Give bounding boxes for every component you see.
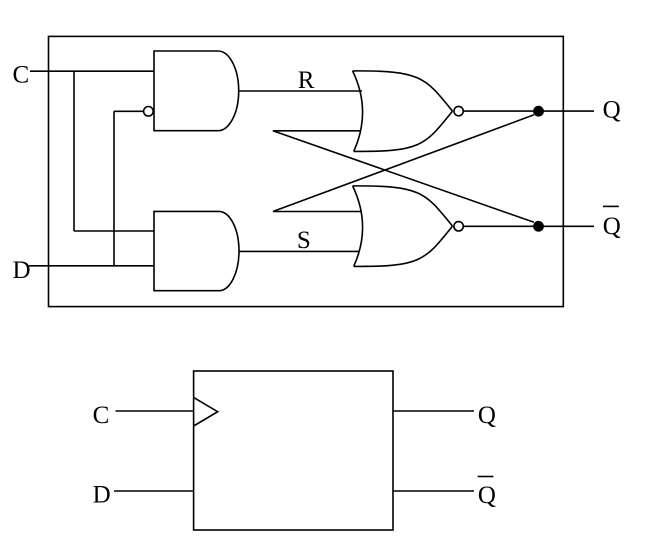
overline of Qbar block — [478, 476, 494, 478]
wire C input — [30, 70, 154, 72]
NOR U4 output bubble — [454, 222, 463, 231]
wire C block input — [116, 410, 194, 412]
AND gate U2 — [154, 211, 239, 290]
input bubble on AND U1 — [144, 107, 154, 117]
wire diagonal Qbar to U3 — [273, 131, 534, 223]
AND gate U1 — [154, 51, 239, 131]
wire Q block output — [393, 410, 474, 412]
svg-text:Q: Q — [478, 402, 496, 429]
wire R — [239, 90, 362, 92]
wire Qbar output — [464, 225, 595, 227]
wire D to inverter bubble — [114, 110, 144, 112]
NOR gate U3 — [353, 71, 453, 152]
wire Q output — [464, 110, 595, 112]
svg-text:Q: Q — [603, 97, 621, 124]
junction dot Qbar — [533, 221, 544, 232]
svg-text:Q: Q — [603, 213, 621, 240]
wire D input — [29, 265, 154, 267]
junction dot Q — [533, 106, 544, 117]
wire C drop vertical — [73, 71, 75, 231]
svg-text:D: D — [13, 257, 31, 284]
wire feedback into U4 upper input — [273, 211, 361, 213]
svg-text:C: C — [93, 402, 110, 429]
NOR gate U4 — [353, 186, 453, 267]
clock triangle — [194, 397, 218, 426]
flip-flop block — [194, 371, 393, 530]
svg-text:R: R — [298, 67, 315, 94]
svg-text:S: S — [297, 227, 311, 254]
wire S — [239, 250, 359, 252]
wire D block input — [114, 490, 194, 492]
outer box — [49, 36, 564, 306]
svg-text:D: D — [93, 482, 111, 509]
wire feedback into U3 lower input — [273, 130, 360, 132]
wire C to lower AND top input — [74, 230, 154, 232]
wire diagonal Q to U4 — [273, 115, 534, 212]
wire Qbar block output — [393, 490, 474, 492]
overline of Qbar top — [603, 205, 619, 207]
NOR U3 output bubble — [454, 106, 463, 115]
svg-text:Q: Q — [478, 482, 496, 509]
svg-text:C: C — [13, 62, 30, 89]
wire D up vertical — [113, 111, 115, 265]
